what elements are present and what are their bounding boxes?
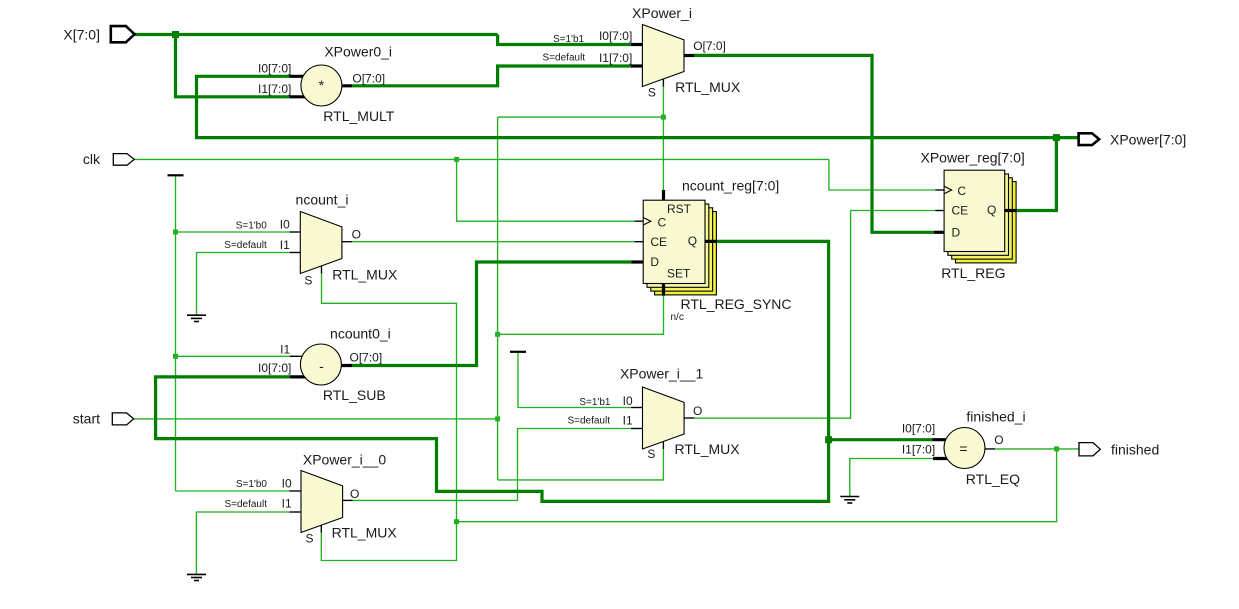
svg-text:RTL_MUX: RTL_MUX bbox=[675, 441, 741, 457]
svg-text:RTL_EQ: RTL_EQ bbox=[966, 471, 1020, 487]
svg-text:I0[7:0]: I0[7:0] bbox=[258, 62, 291, 76]
svg-text:S=1'b0: S=1'b0 bbox=[236, 221, 268, 232]
svg-text:S=default: S=default bbox=[224, 240, 267, 251]
label mux4 RTL_MUX bbox=[332, 525, 398, 541]
label mux2 I1 bbox=[280, 238, 290, 252]
svg-text:I1: I1 bbox=[280, 238, 290, 252]
svg-text:D: D bbox=[650, 255, 659, 269]
wire start net vertical bbox=[497, 117, 499, 480]
label reg1 D bbox=[650, 255, 659, 269]
label reg2 C bbox=[957, 184, 966, 198]
svg-text:I1[7:0]: I1[7:0] bbox=[902, 443, 935, 457]
register XPower_reg stack bbox=[944, 170, 1016, 263]
svg-text:O[7:0]: O[7:0] bbox=[693, 39, 726, 53]
label mux2 S=1'b0 bbox=[236, 221, 268, 232]
svg-text:XPower_i: XPower_i bbox=[632, 5, 692, 21]
label mux4 I1 bbox=[282, 497, 292, 511]
wire XPower_i__0 O to XPower_i__1 I1 bbox=[353, 429, 631, 501]
svg-text:S=default: S=default bbox=[543, 53, 586, 64]
wire constant to XPower_i__0 I0 bbox=[176, 490, 291, 492]
label mult I0[7:0] bbox=[258, 62, 291, 76]
label mux4 O bbox=[350, 487, 359, 501]
svg-text:XPower_reg[7:0]: XPower_reg[7:0] bbox=[921, 150, 1025, 166]
junction start net top bbox=[661, 115, 666, 120]
label reg1 CE bbox=[650, 235, 667, 249]
wire XPower0_i O to XPower_i I1 bbox=[352, 66, 631, 86]
svg-text:RST: RST bbox=[667, 202, 692, 216]
label reg1 C bbox=[658, 216, 667, 230]
register ncount_reg stack bbox=[643, 200, 716, 295]
ground EQ I1 bbox=[840, 497, 859, 504]
label mux1 S=default bbox=[543, 53, 586, 64]
junction finished net tee bbox=[454, 519, 459, 524]
subtractor ncount0_i bbox=[290, 344, 352, 385]
svg-text:O: O bbox=[994, 433, 1003, 447]
wire XPower_i__0 I1 from ground bbox=[196, 512, 290, 574]
svg-text:I1: I1 bbox=[282, 497, 292, 511]
svg-text:S: S bbox=[306, 531, 314, 545]
label mux3 S bbox=[647, 447, 655, 461]
svg-text:SET: SET bbox=[667, 267, 691, 281]
label port clk bbox=[83, 151, 101, 167]
label port start bbox=[73, 411, 100, 427]
wire XPower bus to port bbox=[1056, 136, 1078, 139]
svg-text:I1: I1 bbox=[623, 414, 633, 428]
label mux1 I0[7:0] bbox=[599, 29, 632, 43]
label XPower_i__1 bbox=[620, 366, 703, 382]
svg-text:ncount0_i: ncount0_i bbox=[330, 326, 391, 342]
svg-text:I0: I0 bbox=[623, 394, 633, 408]
wire constant to ncount_i I0 bbox=[176, 231, 292, 233]
label ncount0_i bbox=[330, 326, 391, 342]
port start bbox=[112, 413, 133, 425]
label mux1 RTL_MUX bbox=[675, 79, 741, 95]
junction finished at EQ output bbox=[1054, 446, 1059, 451]
wire ncount_i S net bbox=[321, 274, 456, 561]
wire clk horizontal bbox=[134, 158, 829, 160]
svg-text:RTL_MUX: RTL_MUX bbox=[675, 79, 741, 95]
label XPower_i bbox=[632, 5, 692, 21]
label finished_i bbox=[966, 409, 1025, 425]
junction start tee bbox=[495, 416, 500, 421]
label mux1 S bbox=[648, 85, 656, 99]
svg-text:I0[7:0]: I0[7:0] bbox=[599, 29, 632, 43]
svg-text:finished: finished bbox=[1111, 442, 1159, 458]
ground ncount_i I1 bbox=[187, 315, 206, 321]
label mux4 S=default bbox=[224, 499, 267, 510]
mux ncount_i U2 bbox=[290, 212, 352, 274]
label mux1 S=1'b1 bbox=[553, 34, 585, 45]
mux XPower_i__0 U4 bbox=[290, 471, 353, 533]
tie-off constant B bbox=[510, 351, 526, 353]
wire finished net to EQ junction bbox=[457, 449, 1057, 522]
svg-text:ncount_reg[7:0]: ncount_reg[7:0] bbox=[682, 178, 779, 194]
svg-text:CE: CE bbox=[650, 235, 667, 249]
label mux3 I0 bbox=[623, 394, 633, 408]
wire XPower bus feedback bbox=[197, 76, 1057, 137]
wire clk to ncount_reg C bbox=[457, 159, 635, 221]
svg-text:CE: CE bbox=[952, 204, 969, 218]
svg-text:RTL_MUX: RTL_MUX bbox=[332, 525, 398, 541]
label mux3 RTL_MUX bbox=[675, 441, 741, 457]
svg-text:I1: I1 bbox=[280, 342, 290, 356]
label port X[7:0] bbox=[63, 27, 100, 43]
label mux1 I1[7:0] bbox=[599, 51, 632, 65]
wire start net to XPower_i S and ncount_reg RST bbox=[498, 84, 664, 190]
wire X bus to XPower_i I0 bbox=[498, 35, 631, 45]
label mux3 O bbox=[693, 404, 702, 418]
svg-text:=: = bbox=[959, 441, 967, 457]
label mux4 S bbox=[306, 531, 314, 545]
wire X bus to XPower0_i I1 bbox=[176, 35, 290, 97]
label mux4 S=1'b0 bbox=[236, 479, 268, 490]
svg-text:I0: I0 bbox=[280, 218, 290, 232]
junction XPower bus bbox=[1053, 134, 1060, 141]
wire clk to XPower_reg C bbox=[829, 159, 935, 190]
label mux3 I1 bbox=[623, 414, 633, 428]
svg-text:RTL_REG: RTL_REG bbox=[941, 265, 1005, 281]
svg-text:O[7:0]: O[7:0] bbox=[350, 351, 383, 365]
junction X bus bbox=[172, 31, 179, 38]
wire ncount_i O to ncount_reg CE bbox=[352, 241, 635, 243]
label port finished bbox=[1111, 442, 1159, 458]
label RTL_REG bbox=[941, 265, 1005, 281]
wire ncount bus to EQ I0 bbox=[829, 438, 933, 441]
wire start net to XPower_i__1 S bbox=[498, 447, 664, 480]
label mux2 I0 bbox=[280, 218, 290, 232]
svg-text:O: O bbox=[352, 227, 361, 241]
svg-text:S=1'b0: S=1'b0 bbox=[236, 479, 268, 490]
label sub O[7:0] bbox=[350, 351, 383, 365]
label reg2 D bbox=[952, 226, 961, 240]
wire ncount_reg Q bus bbox=[156, 241, 829, 501]
svg-text:start: start bbox=[73, 411, 100, 427]
junction clk bbox=[454, 157, 459, 162]
wire XPower_i__1 O to XPower_reg CE bbox=[694, 211, 935, 419]
label mux3 S=default bbox=[567, 416, 610, 427]
wire X bus horizontal bbox=[135, 33, 498, 36]
svg-text:S: S bbox=[648, 85, 656, 99]
wire start bbox=[134, 418, 498, 420]
label mux1 O[7:0] bbox=[693, 39, 726, 53]
svg-text:-: - bbox=[319, 358, 324, 374]
svg-text:C: C bbox=[957, 184, 966, 198]
svg-text:Q: Q bbox=[987, 203, 996, 217]
label reg2 CE bbox=[952, 204, 969, 218]
svg-text:ncount_i: ncount_i bbox=[296, 192, 349, 208]
svg-text:O: O bbox=[693, 404, 702, 418]
comparator finished_i EQ bbox=[933, 428, 996, 469]
label XPower_i__0 bbox=[303, 452, 386, 468]
label RTL_SUB bbox=[323, 387, 386, 403]
svg-text:RTL_MULT: RTL_MULT bbox=[323, 108, 395, 124]
label mux2 S=default bbox=[224, 240, 267, 251]
label reg1 RST bbox=[667, 202, 692, 216]
svg-text:O[7:0]: O[7:0] bbox=[352, 71, 385, 85]
svg-text:I1[7:0]: I1[7:0] bbox=[599, 51, 632, 65]
wire ncount0_i O to ncount_reg D bbox=[352, 262, 632, 366]
label n/c bbox=[671, 312, 684, 323]
wire start net to ncount_reg SET bbox=[498, 296, 664, 335]
wire constant to ncount0_i I1 bbox=[176, 355, 299, 357]
svg-text:RTL_SUB: RTL_SUB bbox=[323, 387, 386, 403]
svg-text:I0: I0 bbox=[282, 476, 292, 490]
register XPower_reg pins bbox=[934, 186, 1017, 232]
label mux3 S=1'b1 bbox=[579, 397, 611, 408]
junction constant ncount_i I0 bbox=[173, 230, 178, 235]
svg-text:S: S bbox=[304, 274, 312, 288]
label reg1 Q bbox=[688, 234, 697, 248]
label reg1 SET bbox=[667, 267, 691, 281]
label port XPower[7:0] bbox=[1110, 132, 1186, 148]
svg-text:S=1'b1: S=1'b1 bbox=[579, 397, 611, 408]
port finished bbox=[1079, 443, 1100, 456]
label ncount_reg[7:0] bbox=[682, 178, 779, 194]
svg-text:XPower_i__0: XPower_i__0 bbox=[303, 452, 386, 468]
svg-text:S=1'b1: S=1'b1 bbox=[553, 34, 585, 45]
register ncount_reg pins bbox=[632, 190, 717, 296]
mux XPower_i U1 bbox=[631, 25, 694, 87]
svg-text:finished_i: finished_i bbox=[966, 409, 1025, 425]
svg-text:n/c: n/c bbox=[671, 312, 684, 323]
label mult O[7:0] bbox=[352, 71, 385, 85]
wire ncount_i I1 from ground bbox=[197, 253, 291, 316]
label sub I1 bbox=[280, 342, 290, 356]
wire constant2 to XPower_i__1 I0 bbox=[518, 353, 631, 408]
label mux2 O bbox=[352, 227, 361, 241]
svg-text:RTL_MUX: RTL_MUX bbox=[332, 267, 398, 283]
svg-text:XPower0_i: XPower0_i bbox=[324, 44, 392, 60]
svg-text:D: D bbox=[952, 226, 961, 240]
port XPower[7:0] bbox=[1079, 133, 1100, 145]
svg-text:RTL_REG_SYNC: RTL_REG_SYNC bbox=[681, 296, 792, 312]
junction ncount bus EQ bbox=[825, 436, 832, 443]
label mult I1[7:0] bbox=[258, 82, 291, 96]
label reg2 Q bbox=[987, 203, 996, 217]
svg-text:S=default: S=default bbox=[224, 499, 267, 510]
svg-text:C: C bbox=[658, 216, 667, 230]
mux XPower_i__1 U3 bbox=[631, 387, 694, 449]
port X[7:0] bbox=[111, 26, 135, 42]
ground XPower_i__0 I1 bbox=[187, 574, 206, 580]
wire XPower_i O to XPower_reg D bbox=[694, 55, 934, 232]
label RTL_EQ bbox=[966, 471, 1020, 487]
label XPower0_i bbox=[324, 44, 392, 60]
wire EQ I1 from ground bbox=[850, 459, 933, 497]
label XPower_reg[7:0] bbox=[921, 150, 1025, 166]
svg-text:O: O bbox=[350, 487, 359, 501]
label mux2 S bbox=[304, 274, 312, 288]
svg-text:Q: Q bbox=[688, 234, 697, 248]
label eq I1[7:0] bbox=[902, 443, 935, 457]
wire EQ O to finished port bbox=[995, 448, 1079, 450]
svg-text:XPower[7:0]: XPower[7:0] bbox=[1110, 132, 1186, 148]
svg-text:I1[7:0]: I1[7:0] bbox=[258, 82, 291, 96]
svg-text:S=default: S=default bbox=[567, 416, 610, 427]
svg-text:I0[7:0]: I0[7:0] bbox=[902, 422, 935, 436]
label mux2 RTL_MUX bbox=[332, 267, 398, 283]
svg-text:I0[7:0]: I0[7:0] bbox=[258, 361, 291, 375]
junction start net SET bbox=[495, 332, 500, 337]
multiplier XPower0_i bbox=[290, 65, 353, 106]
label eq I0[7:0] bbox=[902, 422, 935, 436]
label ncount_i bbox=[296, 192, 349, 208]
label RTL_MULT bbox=[323, 108, 395, 124]
svg-text:X[7:0]: X[7:0] bbox=[63, 27, 100, 43]
svg-text:S: S bbox=[647, 447, 655, 461]
tie-off constant A bbox=[168, 174, 184, 176]
svg-text:*: * bbox=[319, 77, 325, 93]
label RTL_REG_SYNC bbox=[681, 296, 792, 312]
label eq O bbox=[994, 433, 1003, 447]
svg-text:XPower_i__1: XPower_i__1 bbox=[620, 366, 703, 382]
wire XPower_reg Q to XPower bus bbox=[1016, 138, 1056, 211]
label mux4 I0 bbox=[282, 476, 292, 490]
svg-text:clk: clk bbox=[83, 151, 101, 167]
wire constant net vertical bbox=[175, 177, 177, 492]
label sub I0[7:0] bbox=[258, 361, 291, 375]
junction constant ncount0_i I1 bbox=[173, 354, 178, 359]
port clk bbox=[113, 154, 134, 166]
